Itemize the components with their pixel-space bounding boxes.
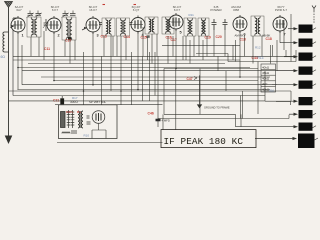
svg-text:R11: R11 xyxy=(189,13,195,17)
svg-text:4kΩ: 4kΩ xyxy=(262,82,268,86)
can T2 lug xyxy=(68,37,71,40)
trimmers above T2 xyxy=(62,13,76,18)
svg-text:C19: C19 xyxy=(205,36,211,40)
svg-text:C18: C18 xyxy=(266,37,272,41)
antenna xyxy=(5,2,13,8)
svg-text:5: 5 xyxy=(180,31,182,35)
IF can T9 xyxy=(251,16,264,36)
svg-text:OB8: OB8 xyxy=(233,8,239,12)
svg-text:R10: R10 xyxy=(84,134,90,138)
capacitor stub xyxy=(147,36,150,37)
IF can T2 xyxy=(62,17,76,40)
svg-text:R17: R17 xyxy=(72,96,78,100)
bus segment xyxy=(196,53,228,55)
IF can T8 xyxy=(198,18,209,36)
ground arrow xyxy=(5,136,13,145)
svg-text:R12: R12 xyxy=(255,46,261,50)
resistor network xyxy=(261,64,276,92)
terminal strip xyxy=(236,25,319,149)
tube V1 xyxy=(11,16,25,34)
arrow into V3 xyxy=(82,28,86,30)
red tick b xyxy=(134,4,137,6)
bend top right xyxy=(276,102,291,106)
IF can T6 xyxy=(162,17,174,34)
capacitor C19sym xyxy=(212,19,217,30)
svg-text:3: 3 xyxy=(97,34,99,38)
svg-text:6 K7: 6 K7 xyxy=(52,8,59,12)
svg-text:GROUND TO FRAME: GROUND TO FRAME xyxy=(204,105,230,109)
IF can T3 xyxy=(102,18,115,36)
svg-text:C27+: C27+ xyxy=(66,110,74,114)
svg-text:C15: C15 xyxy=(141,36,147,40)
svg-text:C46: C46 xyxy=(148,112,154,116)
svg-text:C11: C11 xyxy=(44,47,50,51)
tube V2 xyxy=(47,16,61,34)
IF can T5 xyxy=(145,17,158,34)
svg-text:C21: C21 xyxy=(53,99,59,103)
tube V7 xyxy=(273,15,287,33)
svg-text:C14: C14 xyxy=(124,35,130,39)
svg-text:300Ω: 300Ω xyxy=(70,100,78,104)
extra bus xyxy=(162,44,240,46)
red tick a xyxy=(103,4,106,6)
wire left vert xyxy=(13,18,18,96)
black cap on box top xyxy=(60,98,64,104)
svg-text:16 K7: 16 K7 xyxy=(89,8,97,12)
trimmer bars T3T4 xyxy=(99,23,133,25)
svg-text:6 K7: 6 K7 xyxy=(174,8,181,12)
padder cap xyxy=(43,19,49,31)
IF can T4 xyxy=(117,18,130,36)
dashed lead TR xyxy=(313,11,315,23)
tube V6 xyxy=(233,15,247,33)
svg-text:40kΩ: 40kΩ xyxy=(262,65,270,69)
svg-text:PWR 6-7: PWR 6-7 xyxy=(275,8,288,12)
svg-text:AM-RK: AM-RK xyxy=(235,34,244,38)
trimmers above T1 xyxy=(27,13,43,18)
svg-text:R+: R+ xyxy=(77,110,81,114)
tube V4 xyxy=(131,16,145,34)
ground-to-frame arrow xyxy=(199,75,201,104)
capacitor 4MFD xyxy=(156,119,161,120)
svg-text:4 MFD: 4 MFD xyxy=(162,119,170,123)
IF PEAK box xyxy=(161,130,256,148)
svg-text:SP VIBT 6NL: SP VIBT 6NL xyxy=(89,100,106,104)
capacitor C20sym xyxy=(223,19,228,30)
loop antenna L1 xyxy=(3,32,5,52)
svg-text:POWER: POWER xyxy=(210,8,222,12)
svg-text:R13: R13 xyxy=(258,56,264,60)
svg-text:40kΩ: 40kΩ xyxy=(262,77,270,81)
trimmer leads xyxy=(30,11,73,14)
svg-text:IF PEAK 180 KC: IF PEAK 180 KC xyxy=(164,136,244,147)
bus wires horizontal xyxy=(9,56,297,142)
junction dots xyxy=(17,67,241,92)
svg-text:C10: C10 xyxy=(65,39,71,43)
svg-text:6Ω: 6Ω xyxy=(1,55,6,59)
stage wires vertical xyxy=(18,14,296,130)
tube V3 xyxy=(86,16,100,34)
power supply box xyxy=(59,105,118,139)
svg-text:C18: C18 xyxy=(240,38,246,42)
IF can T7 xyxy=(184,18,196,36)
svg-text:6 Q7: 6 Q7 xyxy=(133,8,140,12)
IF can T1 xyxy=(27,17,41,37)
svg-text:AB-BK: AB-BK xyxy=(262,34,271,38)
svg-text:2: 2 xyxy=(58,34,60,38)
svg-text:45kΩ: 45kΩ xyxy=(262,71,270,75)
tube V5 xyxy=(169,13,183,31)
svg-text:C13: C13 xyxy=(101,35,107,39)
svg-text:1: 1 xyxy=(22,34,24,38)
svg-text:C20: C20 xyxy=(216,35,222,39)
arrow into V1 xyxy=(10,26,14,27)
wire antenna lead xyxy=(8,8,10,137)
svg-text:6A7: 6A7 xyxy=(16,8,22,12)
svg-text:R16: R16 xyxy=(269,88,274,92)
